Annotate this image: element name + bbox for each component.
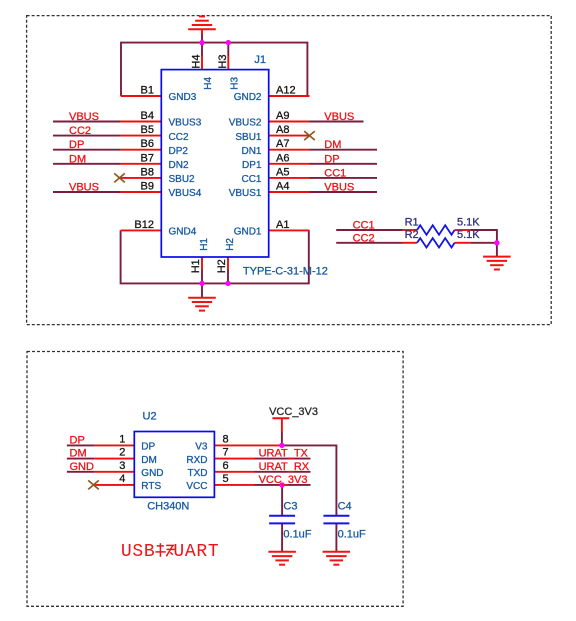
svg-text:SBU1: SBU1 <box>235 132 262 143</box>
svg-text:TXD: TXD <box>188 468 208 479</box>
svg-text:GND2: GND2 <box>234 92 262 103</box>
svg-text:SBU2: SBU2 <box>169 174 196 185</box>
svg-text:R1: R1 <box>405 217 419 229</box>
svg-text:B9: B9 <box>141 181 154 193</box>
svg-text:TYPE-C-31-M-12: TYPE-C-31-M-12 <box>243 265 328 277</box>
svg-text:RXD: RXD <box>186 455 207 466</box>
svg-text:DN2: DN2 <box>169 160 189 171</box>
svg-text:C4: C4 <box>338 500 352 512</box>
svg-text:A1: A1 <box>276 219 289 231</box>
svg-text:DP2: DP2 <box>169 146 189 157</box>
svg-text:VBUS: VBUS <box>324 111 354 123</box>
svg-text:VBUS: VBUS <box>324 182 354 194</box>
svg-text:6: 6 <box>223 460 229 472</box>
svg-text:DP: DP <box>141 442 155 453</box>
svg-text:DP1: DP1 <box>242 160 262 171</box>
svg-text:DM: DM <box>324 139 341 151</box>
svg-text:DP: DP <box>324 153 339 165</box>
svg-text:DM: DM <box>141 455 157 466</box>
svg-text:URAT_RX: URAT_RX <box>259 461 310 473</box>
svg-text:A4: A4 <box>276 181 289 193</box>
svg-text:VBUS4: VBUS4 <box>169 188 202 199</box>
svg-text:H2: H2 <box>225 238 236 251</box>
svg-text:J1: J1 <box>254 54 266 66</box>
svg-text:CC1: CC1 <box>353 220 375 232</box>
svg-text:CH340N: CH340N <box>147 500 189 512</box>
svg-text:H1: H1 <box>199 238 210 251</box>
svg-text:B6: B6 <box>141 138 154 150</box>
svg-text:R2: R2 <box>405 229 419 241</box>
svg-text:B12: B12 <box>134 219 154 231</box>
svg-text:VBUS: VBUS <box>69 182 99 194</box>
svg-text:DM: DM <box>70 448 87 460</box>
svg-text:4: 4 <box>119 473 125 485</box>
svg-text:GND3: GND3 <box>169 92 197 103</box>
svg-text:VCC: VCC <box>186 481 207 492</box>
svg-text:A9: A9 <box>276 110 289 122</box>
svg-text:H2: H2 <box>216 259 228 273</box>
svg-text:0.1uF: 0.1uF <box>338 529 366 541</box>
svg-text:B8: B8 <box>141 166 154 178</box>
svg-text:5: 5 <box>223 473 229 485</box>
svg-text:5.1K: 5.1K <box>457 217 480 229</box>
svg-text:VCC_3V3: VCC_3V3 <box>259 474 308 486</box>
svg-text:DM: DM <box>69 153 86 165</box>
svg-text:VBUS: VBUS <box>69 111 99 123</box>
svg-text:2: 2 <box>119 447 125 459</box>
svg-text:A6: A6 <box>276 152 289 164</box>
svg-text:CC2: CC2 <box>353 232 375 244</box>
svg-text:CC2: CC2 <box>69 125 91 137</box>
svg-text:VCC_3V3: VCC_3V3 <box>269 406 318 418</box>
svg-text:GND4: GND4 <box>169 227 197 238</box>
svg-text:USB: USB <box>121 542 156 562</box>
svg-text:DP: DP <box>70 435 85 447</box>
svg-text:A7: A7 <box>276 138 289 150</box>
svg-text:RTS: RTS <box>141 481 161 492</box>
svg-text:H4: H4 <box>191 55 203 69</box>
svg-text:CC2: CC2 <box>169 132 189 143</box>
svg-text:3: 3 <box>119 460 125 472</box>
svg-text:H1: H1 <box>190 259 202 273</box>
svg-text:B4: B4 <box>141 110 154 122</box>
svg-text:V3: V3 <box>195 442 208 453</box>
svg-text:DN1: DN1 <box>241 146 261 157</box>
svg-text:H3: H3 <box>217 55 229 69</box>
svg-text:8: 8 <box>223 433 229 445</box>
svg-text:B7: B7 <box>141 152 154 164</box>
svg-text:5.1K: 5.1K <box>457 229 480 241</box>
svg-text:URAT_TX: URAT_TX <box>259 448 309 460</box>
svg-text:U2: U2 <box>143 411 157 423</box>
svg-text:7: 7 <box>223 447 229 459</box>
svg-text:UART: UART <box>173 542 219 562</box>
svg-text:C3: C3 <box>283 500 297 512</box>
svg-text:A12: A12 <box>276 85 296 97</box>
svg-text:0.1uF: 0.1uF <box>283 529 311 541</box>
svg-text:VBUS1: VBUS1 <box>229 188 262 199</box>
svg-text:CC1: CC1 <box>324 167 346 179</box>
svg-text:H4: H4 <box>203 76 214 89</box>
svg-text:CC1: CC1 <box>241 174 261 185</box>
svg-text:VBUS2: VBUS2 <box>229 118 262 129</box>
svg-text:GND1: GND1 <box>234 227 262 238</box>
svg-text:H3: H3 <box>230 76 241 89</box>
svg-text:GND: GND <box>70 461 95 473</box>
svg-text:1: 1 <box>119 433 125 445</box>
svg-text:A8: A8 <box>276 124 289 136</box>
svg-text:DP: DP <box>69 139 84 151</box>
svg-text:VBUS3: VBUS3 <box>169 118 202 129</box>
svg-text:B1: B1 <box>141 85 154 97</box>
svg-text:GND: GND <box>141 468 163 479</box>
svg-text:A5: A5 <box>276 166 289 178</box>
svg-text:B5: B5 <box>141 124 154 136</box>
